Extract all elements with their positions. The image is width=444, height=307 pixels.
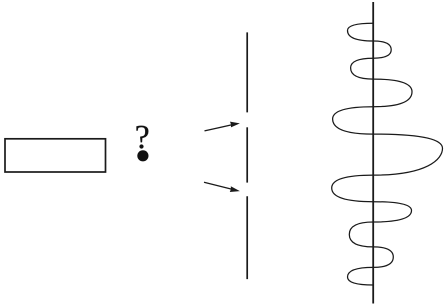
arrow to slit 2 xyxy=(204,182,240,192)
interference wave xyxy=(332,23,443,285)
screen line xyxy=(372,2,374,304)
source box xyxy=(5,139,106,172)
particle dot xyxy=(137,150,148,161)
barrier wall middle segment xyxy=(246,127,248,182)
arrow to slit 1 xyxy=(205,122,240,131)
barrier wall upper segment xyxy=(246,32,248,112)
question mark xyxy=(136,126,148,149)
barrier wall lower segment xyxy=(246,196,248,279)
